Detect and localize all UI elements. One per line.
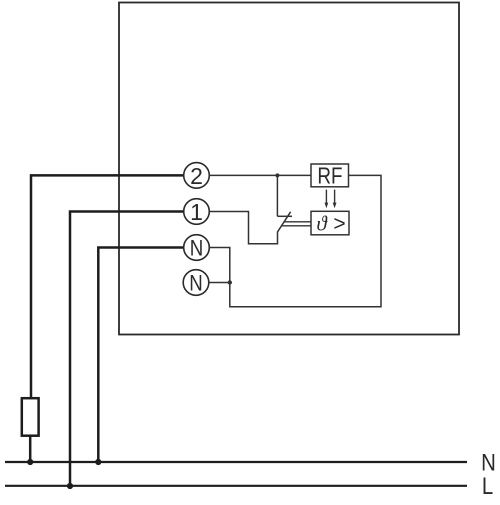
wire: terminal 2 to RF box <box>209 174 311 176</box>
mechanical link (double line thermostat to switch) <box>281 222 311 226</box>
svg-text:>: > <box>333 212 345 235</box>
wire L1: terminal 2 to resistor (live switched) <box>31 175 184 398</box>
wire: resistor bottom to N line <box>29 436 32 462</box>
switch fixed contact stub <box>277 215 292 217</box>
junction dot: wire 1 on L line <box>67 483 73 489</box>
wire: node A down to switch fixed contact <box>276 175 278 216</box>
terminal N (lower) <box>183 270 209 296</box>
signal arrow 2 (RF to thermostat) <box>333 190 337 209</box>
svg-text:RF: RF <box>317 164 342 189</box>
wire: RF box right to neutral rail <box>209 175 381 306</box>
thermostat box (ϑ >) <box>311 211 349 235</box>
junction dot: wire N on N line <box>95 459 101 465</box>
svg-text:N: N <box>189 272 203 296</box>
svg-text:N: N <box>190 237 204 261</box>
switch blade (relay contact) <box>278 212 291 232</box>
terminal N (upper) <box>184 235 210 261</box>
device outline <box>119 3 459 335</box>
wire: terminal 1 to L line <box>70 212 184 487</box>
svg-text:ϑ: ϑ <box>316 212 328 236</box>
junction dot: resistor on N line <box>27 459 33 465</box>
signal arrow 1 (RF to thermostat) <box>325 190 329 209</box>
wire: terminal N lower to neutral rail <box>209 282 230 284</box>
svg-text:1: 1 <box>190 199 203 225</box>
junction dot: N2 on neutral rail <box>228 280 232 284</box>
svg-text:L: L <box>482 472 493 499</box>
terminal 1 <box>184 199 210 225</box>
L line (live mains) <box>5 485 467 487</box>
N line (neutral mains) <box>5 461 467 463</box>
terminal 2 <box>184 163 210 189</box>
wire: terminal 1 to switch pivot <box>209 212 277 244</box>
svg-text:2: 2 <box>190 163 203 189</box>
junction node A (switch feed) <box>275 173 279 177</box>
RF receiver box <box>311 164 349 189</box>
resistor R1 (heating load) <box>22 398 39 436</box>
wire: terminal N to N line <box>98 248 184 463</box>
